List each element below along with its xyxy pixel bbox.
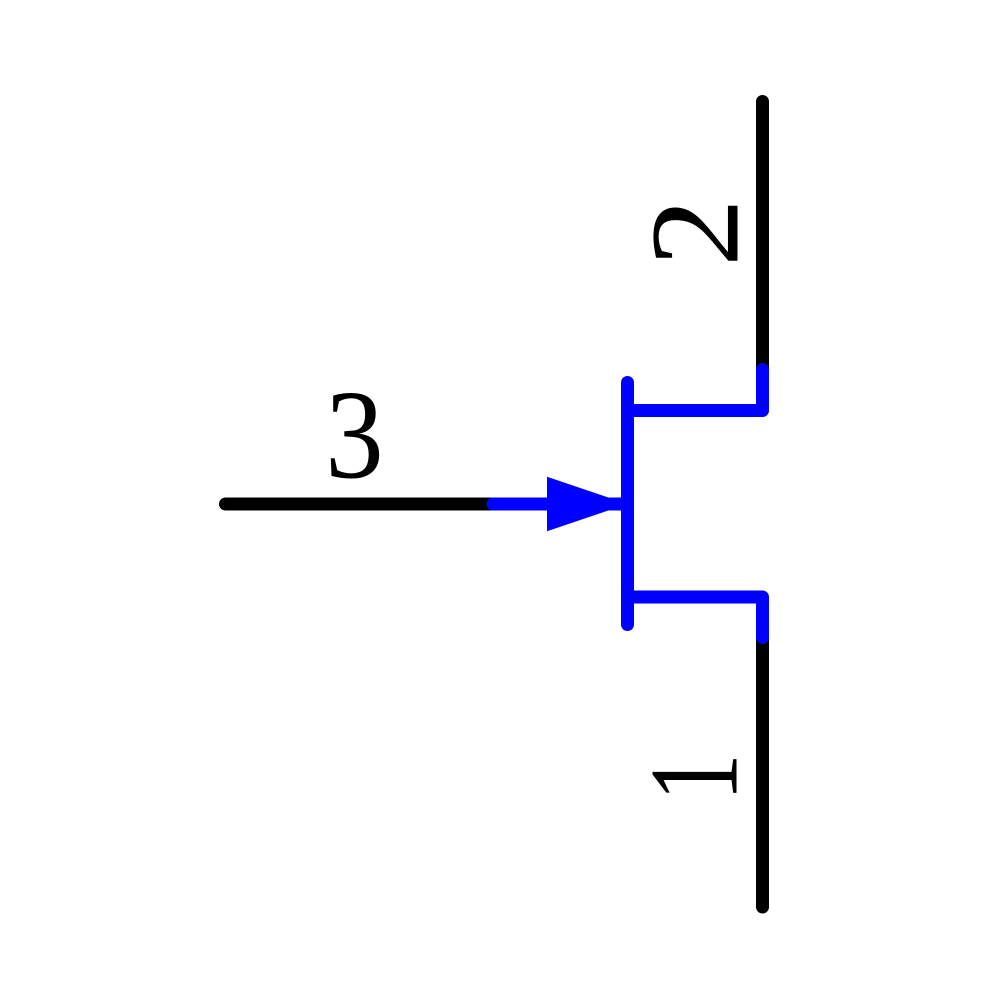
pin 3 wire (gate lead, black horizontal left) bbox=[226, 498, 494, 511]
pin 1 wire (source lead, black vertical bottom-right) bbox=[756, 637, 769, 907]
gate line (blue horizontal into bar) bbox=[493, 498, 628, 511]
gate bar (blue vertical channel bar) bbox=[621, 383, 634, 625]
svg-text:2: 2 bbox=[624, 198, 765, 267]
svg-text:1: 1 bbox=[625, 753, 765, 801]
svg-text:3: 3 bbox=[325, 365, 383, 505]
drain connection (blue, horizontal then up) bbox=[628, 370, 763, 411]
pin 2 wire (drain lead, black vertical top-right) bbox=[756, 102, 769, 371]
gate arrow head (blue filled triangle pointing right) bbox=[547, 477, 628, 531]
source connection (blue, horizontal then down) bbox=[628, 597, 763, 638]
